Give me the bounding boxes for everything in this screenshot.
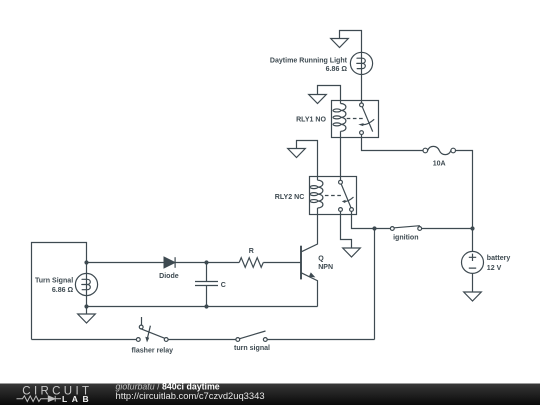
ground (top, lamp L1) — [331, 39, 349, 48]
node junction capacitor bottom — [204, 304, 208, 308]
wire bottom run — [87, 306, 318, 308]
wire turn signal switch to junction riser — [267, 339, 374, 341]
wire battery bottom to ground — [472, 274, 474, 293]
wire fuse to battery top — [456, 151, 473, 252]
svg-text:Diode: Diode — [159, 273, 179, 280]
wire RLY2 switch common pin to ignition junction — [352, 211, 391, 228]
svg-text:ignition: ignition — [393, 234, 418, 241]
svg-text:12 V: 12 V — [487, 265, 502, 272]
wire ignition to battery junction — [422, 228, 473, 230]
wire RLY1 coil top to ground jog — [318, 86, 341, 101]
ground (RLY2 coil) — [288, 149, 306, 158]
wire lamp L2 bottom to ground — [86, 296, 88, 314]
transistor Q NPN — [301, 215, 318, 307]
wire resistor to transistor base — [263, 262, 301, 264]
wire left loop top — [32, 243, 87, 340]
switch turn signal — [236, 331, 267, 341]
lamp L1 Daytime Running Light — [350, 52, 372, 74]
lamp L2 Turn Signal — [75, 273, 97, 295]
relay RLY1 switch contacts and blade — [347, 103, 375, 135]
resistor R — [239, 258, 263, 268]
diode D1 — [164, 257, 175, 268]
svg-text:battery: battery — [487, 255, 511, 262]
relay RLY2 box — [310, 177, 357, 215]
svg-text:flasher relay: flasher relay — [132, 348, 174, 355]
wire flasher to turn signal switch — [168, 339, 236, 341]
relay RLY1 coil — [333, 101, 346, 138]
wire junction down to turn signal run — [374, 229, 376, 340]
capacitor C — [195, 263, 218, 307]
svg-text:C: C — [221, 282, 226, 289]
node junction lamp L2 bottom — [84, 304, 88, 308]
wire RLY1 switch bottom to fuse — [362, 135, 424, 151]
svg-text:6.86 Ω: 6.86 Ω — [52, 287, 74, 294]
relay RLY2 coil — [310, 177, 323, 215]
ground (lamp L2) — [78, 314, 96, 323]
battery 12V source — [462, 251, 484, 273]
svg-text:Daytime Running Light: Daytime Running Light — [270, 58, 348, 65]
wire RLY2 coil top to ground jog — [297, 141, 318, 177]
svg-text:NPN: NPN — [318, 264, 333, 271]
svg-text:10A: 10A — [433, 160, 446, 167]
wire RLY2 switch NC pin to ground jog — [341, 211, 352, 248]
ground (battery) — [464, 292, 482, 301]
node junction capacitor top — [204, 260, 208, 264]
relay RLY1 box — [332, 101, 379, 138]
wire lamp L1 bottom to RLY1 switch top — [361, 75, 363, 104]
footer bar — [0, 384, 540, 405]
node junction ignition riser — [372, 226, 376, 230]
relay RLY2 switch contacts and blade — [325, 180, 354, 211]
svg-text:RLY1 NO: RLY1 NO — [296, 116, 326, 123]
ground (RLY2 switch) — [343, 248, 361, 257]
ground (RLY1 coil) — [309, 95, 327, 104]
wire RLY1 coil bottom to RLY2 switch top — [340, 138, 342, 181]
svg-text:R: R — [249, 248, 254, 255]
svg-text:Q: Q — [318, 255, 324, 262]
svg-text:6.86 Ω: 6.86 Ω — [326, 66, 348, 73]
wire diode to capacitor junction — [175, 262, 206, 264]
fuse 10A — [423, 146, 456, 154]
svg-text:http://circuitlab.com/c7czvd2u: http://circuitlab.com/c7czvd2uq3343 — [116, 390, 265, 401]
wire top run lamp to diode — [87, 262, 165, 264]
switch ignition — [390, 226, 421, 231]
wire capacitor junction to resistor — [207, 262, 240, 264]
CircuitLab logo resistor-diode glyph — [17, 396, 62, 402]
node junction battery top — [470, 226, 474, 230]
wire lamp L1 top to ground jog — [340, 31, 362, 53]
svg-text:LAB: LAB — [62, 394, 93, 404]
svg-text:turn signal: turn signal — [234, 345, 270, 352]
switch flasher relay — [136, 317, 168, 342]
wire flasher relay run — [32, 339, 137, 341]
svg-text:Turn Signal: Turn Signal — [35, 277, 73, 284]
svg-text:RLY2 NC: RLY2 NC — [275, 194, 305, 201]
node junction lamp L2 top — [84, 260, 88, 264]
